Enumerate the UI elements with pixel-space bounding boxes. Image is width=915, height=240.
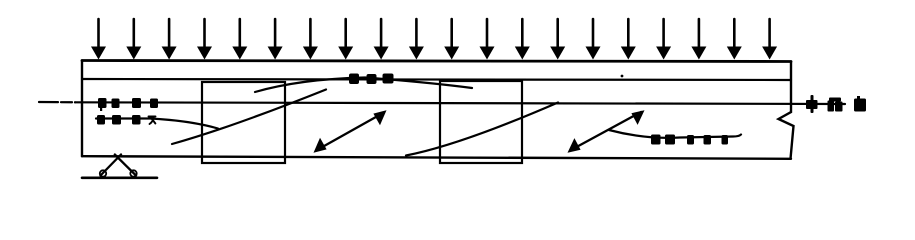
label blobs left row 1 (98, 98, 158, 111)
load arrow 11 (444, 19, 459, 60)
load arrow 6 (268, 19, 283, 60)
load arrow 16 (621, 19, 636, 60)
beam right edge with break zigzag (779, 62, 794, 159)
beam bottom edge (82, 156, 791, 159)
load arrow 17 (656, 19, 671, 60)
beam flange inner line (82, 79, 791, 80)
load arrow 18 (691, 19, 706, 60)
neutral axis dash segment (39, 101, 75, 104)
beam left edge (81, 61, 83, 157)
load arrow 19 (727, 19, 742, 60)
load arrow 15 (586, 19, 601, 60)
load arrow 1 (91, 19, 106, 60)
load arrow 5 (232, 19, 247, 60)
support ground line (82, 177, 157, 180)
diagonal crack right (406, 103, 558, 156)
load arrow 4 (197, 19, 212, 60)
diagonal crack left (172, 90, 326, 145)
label blobs bottom middle (651, 135, 728, 145)
neutral axis line (75, 102, 845, 104)
double arrow 2 (568, 110, 645, 153)
label leader left (96, 119, 218, 129)
load arrow 9 (374, 19, 389, 60)
load arrow 8 (338, 19, 353, 60)
load arrows row (91, 19, 777, 60)
load arrow 7 (303, 19, 318, 60)
load arrow 20 (762, 19, 777, 60)
double arrow 1 (314, 110, 387, 153)
load arrow 12 (480, 19, 495, 60)
load arrow 14 (550, 19, 565, 60)
label blobs right (neutral axis text) (806, 95, 866, 113)
load arrow 2 (126, 19, 141, 60)
stirrup box 1 (202, 82, 285, 163)
pin support triangle (101, 155, 137, 176)
load arrow 3 (162, 19, 177, 60)
compression zone curve (255, 78, 472, 93)
beam top edge (82, 61, 791, 62)
stirrup box 2 (440, 81, 522, 163)
load arrow 10 (409, 19, 424, 60)
label blobs left row 2 (97, 115, 156, 125)
load arrow 13 (515, 19, 530, 60)
label leader right (609, 130, 741, 138)
label blobs top center (349, 74, 394, 85)
support roller left circle (100, 170, 106, 176)
speck dot (621, 75, 624, 78)
support roller right circle (130, 170, 136, 176)
